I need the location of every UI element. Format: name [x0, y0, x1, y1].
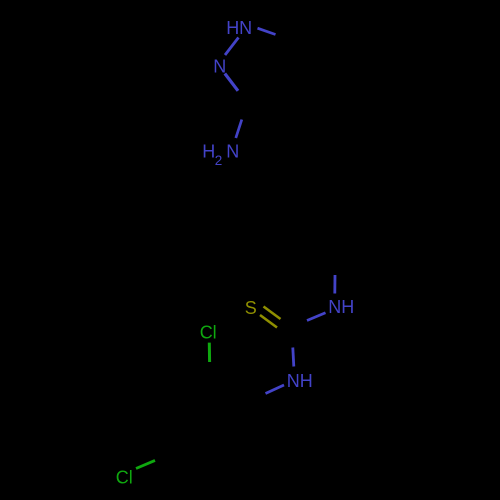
svg-text:NH: NH: [328, 297, 354, 317]
wire N1-C5 (pyrazole, blue half): [258, 28, 276, 34]
wire C-NH vertical (blue half): [333, 275, 336, 294]
svg-text:N: N: [226, 142, 239, 162]
wire Cl-C4 (green half): [136, 460, 155, 468]
wire NH-C(=S) (blue half): [307, 313, 326, 321]
wire C=S double bond (olive halves): [264, 307, 281, 320]
wire NH-C1 aryl (blue half): [266, 385, 285, 394]
svg-text:2: 2: [215, 153, 223, 168]
wire Cl-C2 (green half): [208, 343, 211, 362]
svg-text:Cl: Cl: [116, 468, 133, 488]
svg-text:HN: HN: [226, 18, 252, 38]
svg-text:NH: NH: [287, 371, 313, 391]
wire N2=C3 double bond (blue half): [225, 74, 238, 91]
wire C3-NH2 (blue half): [236, 120, 242, 139]
svg-text:S: S: [245, 298, 257, 318]
wire N1-N2 (pyrazole): [225, 38, 239, 56]
svg-text:N: N: [213, 57, 226, 77]
wire C-NH lower (blue half): [293, 348, 294, 367]
svg-text:H: H: [202, 142, 215, 162]
svg-text:Cl: Cl: [200, 322, 217, 342]
